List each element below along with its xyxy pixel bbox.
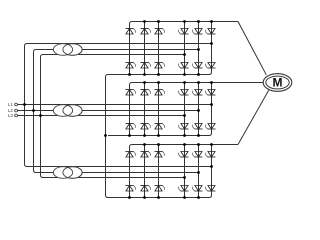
svg-text:M: M — [273, 76, 283, 90]
svg-text:L3: L3 — [8, 113, 13, 118]
svg-text:L1: L1 — [8, 102, 13, 107]
